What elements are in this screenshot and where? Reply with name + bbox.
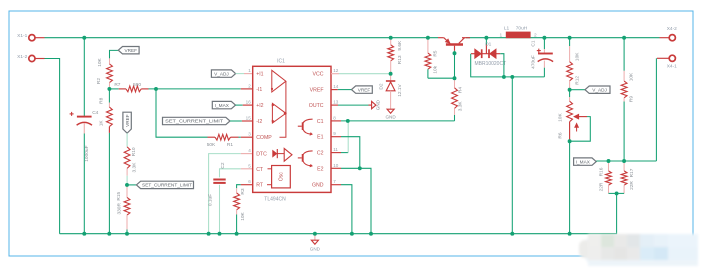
svg-text:VREF: VREF [310,88,324,94]
svg-text:Osc: Osc [279,172,285,181]
flag SET_CURRENT_LIMIT (lower left) [136,181,193,188]
junction node R6 wiper [568,139,572,143]
connector X1-2 [29,55,35,61]
capacitor C2 0.1uF [213,179,225,181]
junction node R5/R4 [453,76,457,80]
wire VREF pin 14 [331,89,338,91]
op-amp U IC1 TL494CN body [253,66,331,192]
svg-text:V_ADJ: V_ADJ [214,71,229,76]
wire C2 pin 11 up [331,152,341,154]
svg-text:E1: E1 [317,135,323,141]
svg-text:R3: R3 [240,188,246,194]
svg-text:R9: R9 [628,96,634,102]
svg-text:VREF: VREF [358,87,371,92]
inductor L1 70uH [506,32,531,39]
flag SET_CURRENT_LIMIT (pin 15) [163,117,231,124]
junction node sense bottom [615,191,619,195]
resistor R2 10K [109,58,111,64]
svg-text:10K: 10K [628,72,634,81]
ground symbol at D2 [387,109,394,113]
junction dots on sense line [607,159,611,163]
IC internal error amp 2 [272,103,286,123]
wire VREF flag to R10 [126,133,128,147]
svg-text:GND: GND [312,183,324,189]
resistor R16 22R [608,161,610,171]
svg-text:4: 4 [248,148,251,153]
junction dot at Q1 base [453,51,457,55]
svg-text:1: 1 [499,32,502,38]
svg-text:-I1: -I1 [256,87,262,93]
resistor R8 1K [108,89,110,103]
svg-text:MBR10020CT: MBR10020CT [474,61,506,67]
svg-text:DTC: DTC [256,152,267,158]
svg-text:10K: 10K [240,211,246,220]
svg-text:11: 11 [333,147,338,152]
junction dots on ground rail [82,232,86,236]
svg-text:R10: R10 [131,147,137,156]
svg-text:-I2: -I2 [256,119,262,125]
svg-text:D1: D1 [485,42,491,48]
resistor R4 3.3K [454,78,456,88]
svg-text:1000uF: 1000uF [84,145,90,161]
wire V_ADJ to +I1 pin 1 [236,73,244,75]
svg-text:L1: L1 [504,25,510,31]
svg-text:R13: R13 [397,55,403,64]
resistor R12 10K [569,38,571,46]
svg-text:CT: CT [256,167,264,173]
connector X4-1 [669,55,675,61]
svg-text:C1: C1 [530,40,536,46]
potentiometer R6 10K [569,90,571,97]
svg-text:IC1: IC1 [277,58,285,64]
resistor R17 22R [623,161,625,171]
svg-text:D2: D2 [378,83,384,89]
svg-text:5: 5 [248,163,251,168]
svg-text:R5: R5 [432,50,438,56]
svg-text:3: 3 [248,132,251,137]
svg-text:3.3K: 3.3K [457,101,463,112]
flag V_ADJ (pin 1) [211,70,235,77]
resistor R7 590 [109,88,118,90]
junction node VCC [389,72,393,76]
svg-text:10K: 10K [97,57,103,66]
resistor R10 3.3K [124,147,130,169]
wire E2 pin 10 to ground rail [331,167,341,169]
svg-text:V_ADJ: V_ADJ [592,87,607,92]
svg-text:GND: GND [310,246,321,251]
wire D1 left anode down [471,54,545,77]
svg-text:10K: 10K [558,113,564,122]
svg-text:+I1: +I1 [256,72,263,78]
capacitor C4 1000uF [83,38,85,116]
resistor R1 50K [208,136,216,138]
flag VREF (vertical) [123,112,131,133]
flag I_MAX (right) [574,158,597,165]
svg-text:10K: 10K [575,52,581,61]
diode D1 MBR10020CT [475,49,481,58]
junction dots on top rail [82,36,86,40]
svg-text:590: 590 [133,82,141,88]
wire C1/C2 collectors to R4 [331,120,341,122]
svg-text:R4: R4 [457,87,463,93]
wire top rail (+V input to L1 to X4-2) [45,37,439,39]
svg-text:12.1V: 12.1V [397,83,403,96]
svg-text:RT: RT [256,183,264,189]
svg-text:50K: 50K [207,142,216,148]
junction node R2/R7/R8 [107,87,111,91]
wire RT pin 6 to R3 [237,185,241,189]
wire DTC pin 4 to ground rail [209,154,241,234]
wire X1-2 to ground rail [45,59,60,234]
wire R7 to -I1 pin 2 [149,88,241,90]
connector X1-1 [29,35,35,41]
svg-text:C2: C2 [220,162,226,168]
wire D1 common cathode to rail [485,38,487,45]
wire R6 to ground rail [569,141,571,234]
svg-text:14: 14 [333,84,339,89]
wire ground rail [60,193,617,233]
IC internal error amp 1 [272,70,286,92]
connector X4-2 [669,35,675,41]
svg-text:9: 9 [333,131,336,136]
svg-text:22R: 22R [629,181,635,190]
svg-text:12: 12 [333,68,339,73]
svg-text:15: 15 [246,116,252,121]
svg-text:8: 8 [333,115,336,120]
svg-text:GND: GND [385,114,396,119]
svg-text:X1-2: X1-2 [17,54,27,60]
svg-text:COMP: COMP [256,135,272,141]
junction node R10/R15/SET_CURRENT_LIMIT [125,183,129,187]
wire SET_CURRENT_LIMIT to -I2 pin 15 [230,120,242,122]
svg-text:X4-1: X4-1 [667,64,677,70]
junction node -I1/COMP [154,87,158,91]
wire E1 pin 9 down [331,136,341,138]
svg-text:470uF: 470uF [530,55,536,69]
flag I_MAX (pin 16) [212,101,235,108]
IC internal DTC diode and buffer [273,151,277,157]
svg-text:2: 2 [534,32,537,38]
wire VCC pin 12 to R13/D2 node [331,73,339,75]
wire OUTC pin 13 [331,104,338,106]
svg-text:I_MAX: I_MAX [576,159,591,164]
svg-text:0.1uF: 0.1uF [208,194,214,206]
resistor R5 10k [427,39,429,53]
svg-text:C1: C1 [317,119,324,125]
svg-text:10k: 10k [432,65,438,73]
svg-text:1K: 1K [99,120,105,127]
svg-text:13: 13 [333,100,339,105]
junction node E1/E2 [358,166,362,170]
zener diode D2 12.1V [390,74,392,81]
svg-text:R2: R2 [96,78,102,84]
svg-text:7: 7 [333,179,336,184]
svg-text:2: 2 [248,83,251,88]
wire D1 right anode down [500,54,504,77]
svg-text:+I2: +I2 [256,103,263,109]
svg-text:10: 10 [333,163,339,168]
svg-text:OUTC: OUTC [309,103,324,109]
transistor Q1 (PNP pass) [438,37,444,39]
svg-text:VREF: VREF [125,48,138,53]
capacitor C1 470uF [543,38,545,49]
wire GND pin 7 to ground rail [331,184,341,186]
svg-text:TL494CN: TL494CN [264,197,286,203]
svg-text:9.6K: 9.6K [397,40,403,51]
wire I_MAX to +I2 pin 16 [236,104,243,106]
wire -I1 node to COMP [156,89,208,137]
svg-text:330R: 330R [116,203,122,215]
ground symbol at OUTC (rotated) [372,101,376,108]
svg-text:R17: R17 [629,168,635,177]
flag V_ADJ (right) [585,86,610,93]
flag VREF (pin 14) [352,86,373,93]
wire output ground to rail [511,77,513,234]
svg-text:I_MAX: I_MAX [215,103,230,108]
wire X4-1 down to sense line [655,58,657,161]
watermark blur [579,234,698,266]
IC internal transistor 2 [302,154,304,162]
svg-text:E2: E2 [317,166,323,172]
svg-text:22R: 22R [598,182,604,191]
svg-text:X4-2: X4-2 [667,26,677,32]
wire to V_ADJ flag [570,89,585,91]
wire CT pin 5 to C2 [220,169,241,178]
svg-text:6: 6 [248,179,251,184]
svg-text:R8: R8 [98,97,104,103]
wire Q1 base to R5/R4 node [454,51,456,78]
wire I_MAX sense line [596,160,656,162]
wire R1 to COMP pin 3 [239,136,241,138]
wire to SET_CURRENT_LIMIT flag [127,184,136,186]
svg-text:R16: R16 [598,167,604,176]
wire sense resistor bottoms [609,192,625,194]
junction node pin8 [346,119,350,123]
flag VREF (top left) [118,47,139,54]
svg-text:SET_CURRENT_LIMIT: SET_CURRENT_LIMIT [142,183,192,188]
junction node V_ADJ [568,88,572,92]
ground symbol on rail [314,234,316,240]
IC internal comp connection [280,81,286,137]
IC internal transistor 1 [302,122,304,130]
svg-text:70uH: 70uH [516,25,528,31]
svg-text:3.3K: 3.3K [131,162,137,173]
svg-text:16: 16 [246,100,252,105]
resistor R15 330R [126,186,128,197]
svg-text:R15: R15 [116,191,122,200]
wire VREF to R2 [110,50,119,58]
svg-text:1: 1 [248,68,251,73]
svg-text:X1-1: X1-1 [17,33,27,39]
svg-text:R6: R6 [558,132,564,138]
svg-text:C2: C2 [317,151,324,157]
svg-text:R7: R7 [114,82,120,88]
svg-text:VCC: VCC [313,72,324,78]
resistor R9 10K [623,38,625,71]
svg-text:VREF: VREF [125,114,130,127]
svg-text:C4: C4 [92,110,98,116]
svg-text:R12: R12 [575,76,581,85]
IC internal oscillator box [272,166,291,188]
svg-text:R1: R1 [227,142,233,148]
resistor R3 10K [236,188,238,193]
svg-text:GND: GND [376,99,381,110]
svg-text:SET_CURRENT_LIMIT: SET_CURRENT_LIMIT [165,119,223,124]
wire R5 bottom to base node [428,77,455,79]
resistor R13 9.6K [390,38,392,45]
junction dots on output ground link [502,75,506,79]
